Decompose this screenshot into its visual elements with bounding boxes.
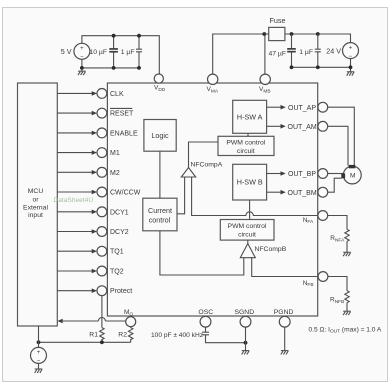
svg-text:PWM control: PWM control (228, 223, 267, 230)
svg-text:Logic: Logic (151, 131, 169, 140)
svg-text:DCY2: DCY2 (110, 229, 129, 236)
svg-text:10 µF: 10 µF (89, 49, 107, 56)
svg-text:OUT_AP: OUT_AP (288, 105, 316, 112)
svg-text:MCU: MCU (28, 188, 44, 195)
svg-text:PWM control: PWM control (226, 140, 265, 147)
svg-text:OUT_AM: OUT_AM (288, 124, 317, 131)
svg-text:OUT_BM: OUT_BM (288, 190, 317, 197)
svg-text:24 V: 24 V (326, 47, 341, 56)
svg-text:circuit: circuit (238, 231, 256, 238)
svg-text:M1: M1 (110, 150, 120, 157)
svg-text:CLK: CLK (110, 91, 124, 98)
svg-text:control: control (149, 215, 171, 224)
svg-text:5 V: 5 V (61, 47, 72, 56)
svg-text:TQ2: TQ2 (110, 269, 124, 276)
svg-text:+: + (349, 45, 353, 51)
svg-text:H-SW A: H-SW A (237, 113, 263, 122)
svg-text:DCY1: DCY1 (110, 209, 129, 216)
svg-text:SGND: SGND (234, 309, 254, 316)
svg-text:CW/CCW: CW/CCW (110, 190, 141, 197)
svg-text:or: or (32, 197, 39, 204)
svg-text:ENABLE: ENABLE (110, 130, 138, 137)
svg-text:M: M (350, 173, 356, 180)
svg-text:R2: R2 (118, 331, 127, 338)
svg-text:+: + (80, 46, 84, 52)
svg-text:1 µF: 1 µF (121, 49, 135, 56)
svg-text:circuit: circuit (237, 148, 255, 155)
svg-text:NFCompB: NFCompB (255, 246, 287, 253)
svg-text:Current: Current (148, 206, 172, 215)
svg-text:OUT_BP: OUT_BP (288, 171, 316, 178)
svg-text:M2: M2 (110, 170, 120, 177)
svg-text:NFCompA: NFCompA (191, 162, 223, 169)
svg-text:input: input (28, 212, 43, 219)
svg-text:PGND: PGND (274, 309, 294, 316)
svg-text:External: External (23, 205, 48, 212)
svg-text:1 µF: 1 µF (299, 49, 313, 56)
svg-text:Protect: Protect (110, 288, 132, 295)
svg-text:H-SW B: H-SW B (237, 178, 263, 187)
svg-text:+: + (37, 350, 41, 356)
svg-text:Fuse: Fuse (270, 16, 286, 25)
svg-text:100 pF ± 400 kHz: 100 pF ± 400 kHz (151, 332, 203, 339)
svg-text:TQ1: TQ1 (110, 249, 124, 256)
svg-text:OSC: OSC (198, 309, 213, 316)
svg-text:47 µF: 47 µF (268, 51, 286, 58)
svg-text:R1: R1 (89, 331, 98, 338)
svg-text:RESET: RESET (110, 111, 134, 118)
